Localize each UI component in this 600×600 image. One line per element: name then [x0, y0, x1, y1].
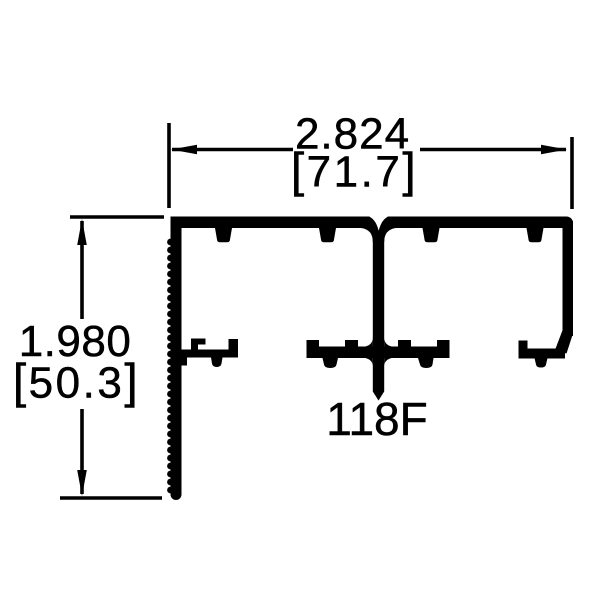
- svg-text:118F: 118F: [326, 393, 427, 445]
- svg-text:[71.7]: [71.7]: [291, 145, 418, 198]
- svg-text:[50.3]: [50.3]: [13, 356, 140, 409]
